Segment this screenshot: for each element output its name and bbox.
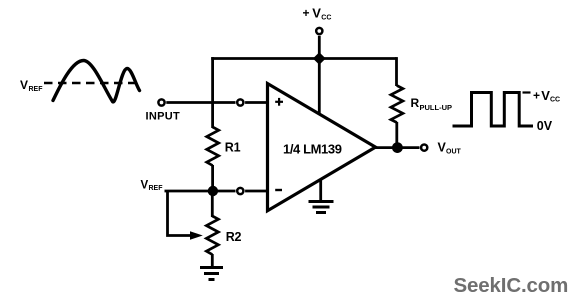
svg-text:REF: REF	[149, 185, 164, 192]
node VREF junction	[208, 186, 218, 196]
node output junction	[392, 142, 403, 153]
label VREF (lower)	[141, 180, 164, 193]
wire: pin circle to op-amp + input	[245, 101, 267, 104]
wire: op-amp output to VOUT terminal	[374, 146, 420, 149]
op-amp + pin mark	[275, 98, 283, 106]
svg-text:R1: R1	[225, 141, 241, 155]
INPUT terminal	[158, 99, 164, 105]
wire: VREF horizontal to pin circle	[165, 190, 236, 193]
svg-text:SeekIC.com: SeekIC.com	[454, 274, 569, 297]
wire: R pull-up bottom to output node	[395, 122, 398, 148]
wire: R2 bottom to ground	[211, 254, 214, 267]
ground (below op-amp)	[309, 202, 334, 213]
wire: R1 bottom to VREF node	[211, 165, 214, 192]
wire: pin circle to op-amp - input	[245, 190, 267, 193]
potentiometer arrow head	[190, 231, 203, 240]
resistor R1	[207, 127, 219, 166]
input waveform dashed reference line	[44, 82, 142, 84]
wire: potentiometer wiper loop	[168, 191, 195, 236]
label VREF (input waveform)	[20, 78, 43, 93]
svg-text:REF: REF	[29, 86, 44, 93]
svg-text:+: +	[533, 89, 540, 103]
wire: op-amp ground stem	[319, 179, 322, 201]
svg-text:R: R	[411, 96, 420, 110]
wire: top rail	[211, 57, 396, 60]
label +VCC (output waveform)	[533, 88, 560, 104]
svg-text:OUT: OUT	[446, 149, 462, 156]
svg-text:0V: 0V	[537, 119, 553, 133]
op-amp - pin mark	[275, 189, 282, 191]
svg-text:+: +	[303, 6, 310, 20]
svg-text:PULL-UP: PULL-UP	[420, 103, 453, 112]
input waveform sine	[53, 61, 140, 102]
label +VCC (top)	[303, 6, 332, 22]
svg-text:V: V	[20, 78, 28, 92]
svg-text:CC: CC	[321, 15, 331, 22]
op-amp U1 (1/4 LM139)	[268, 84, 376, 211]
output waveform square wave	[453, 93, 534, 127]
wire: right vertical from top rail to R pull-up	[395, 57, 398, 86]
svg-text:INPUT: INPUT	[146, 111, 181, 123]
label VOUT	[438, 141, 462, 156]
wire: VREF node down to R2	[211, 191, 214, 217]
svg-text:CC: CC	[550, 97, 560, 104]
svg-text:V: V	[312, 6, 321, 21]
wire: INPUT terminal to pin circle	[166, 101, 235, 104]
terminal +VCC	[316, 28, 322, 34]
node top junction	[313, 52, 326, 64]
resistor R2 (potentiometer)	[206, 216, 218, 255]
output waveform VCC level tick	[523, 91, 531, 93]
svg-text:V: V	[141, 180, 149, 192]
wire: +VCC terminal to junction	[318, 36, 321, 59]
svg-text:1/4 LM139: 1/4 LM139	[283, 142, 342, 157]
wire: junction down to op-amp top edge	[318, 59, 321, 114]
resistor RPULL-UP	[391, 86, 403, 123]
ground (below R2)	[200, 268, 223, 280]
label RPULL-UP	[411, 96, 453, 112]
svg-text:R2: R2	[226, 230, 242, 244]
pin circle at + input	[237, 99, 243, 105]
wire: left vertical from top rail through INPUT line	[211, 57, 214, 128]
svg-text:V: V	[541, 88, 550, 103]
terminal VOUT	[421, 145, 427, 151]
pin circle at - input	[237, 188, 243, 194]
